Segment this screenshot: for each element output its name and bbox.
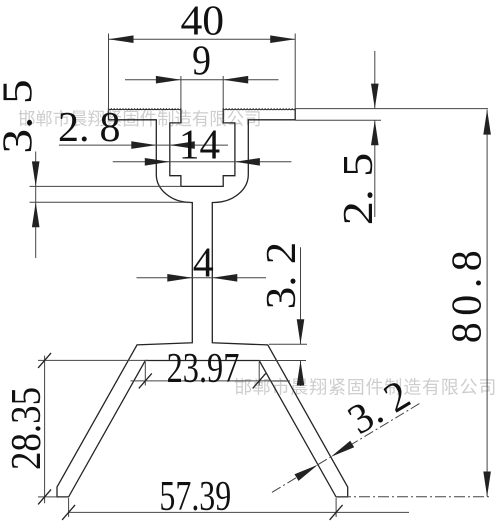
- dimension 23.97: slash ticks: [139, 373, 266, 388]
- svg-text:23.97: 23.97: [167, 346, 240, 392]
- dimension 28.35: dim line: [44, 356, 46, 504]
- dimension 80.8: arrows: [483, 110, 491, 497]
- dimension 3.2 leg: leader dash-dot: [272, 403, 420, 492]
- dimension 80.8: dim line: [486, 110, 488, 497]
- dimension 4: arrows: [167, 274, 237, 282]
- dimension 3.2 plate: arrows: [297, 319, 305, 385]
- dimension 3.2 leg: arrows: [295, 441, 355, 481]
- svg-text:9: 9: [192, 37, 211, 84]
- dimension 3.5: dim line: [35, 152, 37, 259]
- svg-text:8: 8: [100, 105, 121, 151]
- dimension 23.97: extension lines: [145, 362, 259, 386]
- svg-text:28.35: 28.35: [3, 387, 50, 470]
- dimension 28.35: extension lines: [38, 360, 148, 497]
- dimension 57.39: extension lines: [69, 498, 337, 517]
- dimension 9: dim line: [125, 79, 279, 81]
- serration left flange top: [109, 108, 181, 109]
- dimension 40: dim line: [109, 38, 296, 40]
- dimension 2.8: arrows: [131, 141, 195, 149]
- svg-text:57.39: 57.39: [159, 474, 231, 520]
- dimension 2.5: dim line: [374, 51, 376, 217]
- dimension 2.5: arrows: [371, 84, 379, 146]
- dimension 3.5: extension lines: [30, 186, 191, 202]
- dimension 40: extension lines: [109, 34, 296, 113]
- profile outline: [57, 108, 348, 497]
- serration right flange top: [223, 108, 295, 110]
- dimension 28.35: slash ticks: [38, 353, 51, 505]
- dimension 4: dim line: [137, 277, 267, 279]
- dimension 3.5: arrows: [32, 161, 40, 227]
- svg-text:3. 5: 3. 5: [0, 79, 41, 153]
- dimension 57.39: dim line: [69, 511, 409, 513]
- dimension 14: arrows: [145, 158, 260, 166]
- dimension 23.97: dim line: [131, 380, 291, 382]
- dimension 9: extension lines: [181, 76, 223, 108]
- svg-text:2. 5: 2. 5: [335, 153, 381, 225]
- dimension 3.2 plate: dim line: [300, 247, 302, 386]
- dimension 57.39: slash ticks: [62, 505, 343, 520]
- dimension 2.8: dim line: [59, 144, 228, 146]
- svg-text:4: 4: [193, 240, 214, 286]
- svg-text:2.: 2.: [58, 105, 90, 151]
- dimension 80.8: extension line dash-dot: [340, 496, 490, 498]
- dimension 40: arrows: [109, 35, 296, 43]
- dimension 3.2 plate: extension lines: [259, 344, 307, 360]
- svg-text:3. 2: 3. 2: [258, 242, 304, 309]
- svg-text:80.8: 80.8: [444, 244, 490, 344]
- svg-text:14: 14: [179, 121, 220, 167]
- dimension 2.5: extension lines: [295, 109, 488, 121]
- dimension 14: dim line: [113, 161, 292, 163]
- dimension 9: arrows: [156, 76, 248, 84]
